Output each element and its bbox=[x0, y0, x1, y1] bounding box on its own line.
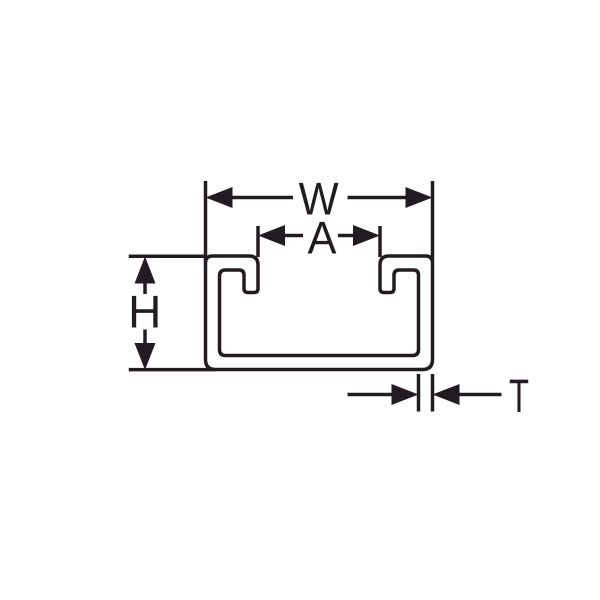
svg-text:A: A bbox=[308, 212, 337, 264]
svg-text:H: H bbox=[128, 286, 161, 338]
svg-text:T: T bbox=[509, 369, 529, 422]
